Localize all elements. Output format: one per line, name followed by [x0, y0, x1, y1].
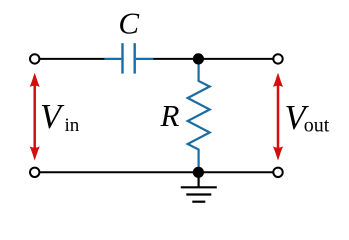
svg-text:out: out	[304, 115, 330, 137]
svg-text:R: R	[160, 98, 180, 133]
svg-text:in: in	[65, 115, 80, 136]
svg-text:C: C	[118, 6, 139, 41]
